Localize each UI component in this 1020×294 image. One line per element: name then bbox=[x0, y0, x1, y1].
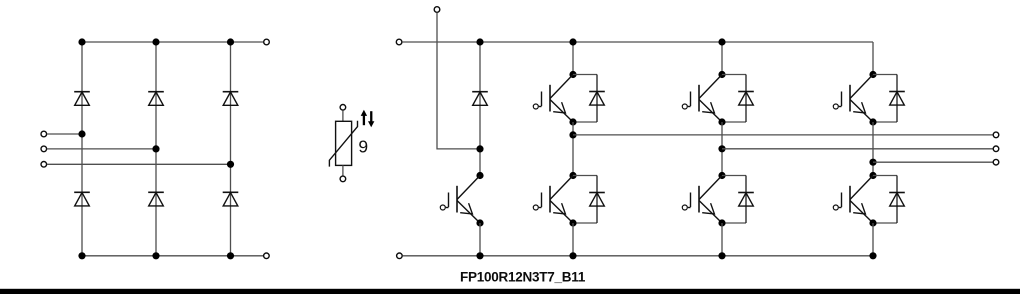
wire: phase V top collector feed bbox=[721, 42, 723, 75]
wire: rectifier DC+ top rail bbox=[82, 41, 263, 43]
terminal: inverter DC- input bbox=[397, 253, 403, 259]
node: phase W top IGBT collector bbox=[869, 71, 876, 78]
node: DC+ rail / phase U leg bbox=[569, 38, 576, 45]
wire: brake terminal to chopper midpoint bbox=[437, 13, 480, 149]
wire: AC input line 3 bbox=[47, 163, 231, 165]
node: brake IGBT collector bbox=[476, 172, 483, 179]
node: DC+ rail / brake leg bbox=[476, 38, 483, 45]
wire: AC input line 2 bbox=[47, 148, 156, 150]
footer bar bbox=[0, 289, 1020, 294]
node: phase V output junction bbox=[718, 145, 725, 152]
node: phase W output junction bbox=[869, 159, 876, 166]
thermistor top terminal bbox=[340, 105, 346, 111]
IGBT Q3 (phase V high side) bbox=[682, 75, 722, 123]
node: AC input 1 / leg 1 junction bbox=[78, 130, 85, 137]
diode D3 (rectifier leg 3 top) bbox=[223, 92, 239, 106]
wire: phase W bottom emitter feed bbox=[872, 223, 874, 256]
node: DC- rail / phase W leg bbox=[869, 252, 876, 259]
wire: brake leg lower vertical bbox=[479, 223, 481, 256]
node: phase W bottom IGBT collector bbox=[869, 172, 876, 179]
freewheel diode (phase U high side) symbol bbox=[589, 92, 605, 106]
diode D2 (rectifier leg 2 top) bbox=[148, 92, 164, 106]
wire: inverter DC- rail bbox=[403, 255, 874, 257]
node: bottom rail / leg 3 junction bbox=[227, 252, 234, 259]
wire: rectifier leg 2 vertical bbox=[155, 42, 157, 256]
freewheel diode (phase V low side) symbol bbox=[738, 193, 754, 207]
svg-text:FP100R12N3T7_B11: FP100R12N3T7_B11 bbox=[460, 269, 586, 284]
node: phase U top IGBT collector bbox=[569, 71, 576, 78]
node: phase V bottom IGBT emitter bbox=[718, 219, 725, 226]
wire: phase U output line bbox=[573, 134, 993, 136]
terminal: phase W output bbox=[993, 159, 999, 165]
node: DC- rail / brake leg bbox=[476, 252, 483, 259]
freewheel diode (phase U low side) bbox=[573, 176, 597, 224]
node: brake IGBT emitter bbox=[476, 219, 483, 226]
node: phase V top IGBT collector bbox=[718, 71, 725, 78]
node: DC+ rail / phase V leg bbox=[718, 38, 725, 45]
freewheel diode (phase W low side) bbox=[873, 176, 897, 224]
freewheel diode (phase V low side) bbox=[722, 176, 746, 224]
wire: phase V bottom emitter feed bbox=[721, 223, 723, 256]
IGBT Q2 (phase U low side) bbox=[533, 176, 573, 224]
wire: phase U midpoint vertical bbox=[572, 122, 574, 176]
node: phase U top IGBT emitter bbox=[569, 118, 576, 125]
wire: phase W output line bbox=[873, 161, 993, 163]
terminal: AC input 1 bbox=[41, 131, 47, 137]
wire: phase V midpoint vertical bbox=[721, 122, 723, 176]
terminal: rectifier DC- output bbox=[264, 253, 270, 259]
IGBT Q1 (phase U high side) bbox=[533, 75, 573, 123]
wire: phase W midpoint vertical bbox=[872, 122, 874, 176]
node: phase U bottom IGBT collector bbox=[569, 172, 576, 179]
diode D6 (rectifier leg 3 bottom) bbox=[223, 192, 239, 206]
terminal: phase U output bbox=[993, 132, 999, 138]
diode D1 (rectifier leg 1 top) bbox=[74, 92, 90, 106]
node: phase W bottom IGBT emitter bbox=[869, 219, 876, 226]
terminal: brake resistor connection bbox=[434, 7, 440, 13]
wire: phase V output line bbox=[722, 148, 993, 150]
wire: phase U bottom emitter feed bbox=[572, 223, 574, 256]
freewheel diode (phase W low side) symbol bbox=[889, 193, 905, 207]
node: top rail / leg 3 junction bbox=[227, 38, 234, 45]
node: phase V bottom IGBT collector bbox=[718, 172, 725, 179]
node: AC input 2 / leg 2 junction bbox=[152, 145, 159, 152]
terminal: AC input 3 bbox=[41, 162, 47, 168]
wire: rectifier leg 1 vertical bbox=[81, 42, 83, 256]
IGBT Q7 (brake chopper) bbox=[440, 176, 480, 224]
node: phase V top IGBT emitter bbox=[718, 118, 725, 125]
thermistor bottom terminal bbox=[340, 176, 346, 182]
wire: thermistor bottom lead bbox=[342, 165, 344, 175]
freewheel diode (phase W high side) symbol bbox=[889, 92, 905, 106]
node: AC input 3 / leg 3 junction bbox=[227, 161, 234, 168]
IGBT Q6 (phase W low side) bbox=[833, 176, 873, 224]
wire: phase W top collector feed bbox=[872, 42, 874, 75]
wire: inverter DC+ rail bbox=[402, 41, 873, 43]
svg-text:9: 9 bbox=[358, 136, 368, 156]
terminal: rectifier DC+ output bbox=[264, 39, 270, 45]
node: DC- rail / phase U leg bbox=[569, 252, 576, 259]
diode D4 (rectifier leg 1 bottom) bbox=[74, 192, 90, 206]
node: top rail / leg 1 junction bbox=[78, 38, 85, 45]
IGBT Q4 (phase V low side) bbox=[682, 176, 722, 224]
wire: thermistor top lead bbox=[342, 110, 344, 121]
temperature up arrow bbox=[361, 110, 367, 125]
terminal: phase V output bbox=[993, 146, 999, 152]
node: phase U bottom IGBT emitter bbox=[569, 219, 576, 226]
NTC thermistor R(NTC) body bbox=[329, 121, 357, 167]
wire: rectifier DC- bottom rail bbox=[82, 255, 263, 257]
diode D5 (rectifier leg 2 bottom) bbox=[148, 192, 164, 206]
node: bottom rail / leg 2 junction bbox=[152, 252, 159, 259]
node: brake midpoint junction bbox=[476, 145, 483, 152]
IGBT Q5 (phase W high side) bbox=[833, 75, 873, 123]
freewheel diode (phase W high side) bbox=[873, 75, 897, 123]
wire: AC input line 1 bbox=[47, 133, 82, 135]
freewheel diode (phase U high side) bbox=[573, 75, 597, 123]
temperature down arrow bbox=[368, 111, 374, 127]
node: bottom rail / leg 1 junction bbox=[78, 252, 85, 259]
node: phase U output junction bbox=[569, 131, 576, 138]
freewheel diode (phase U low side) symbol bbox=[589, 193, 605, 207]
freewheel diode (phase V high side) bbox=[722, 75, 746, 123]
diode D7 (brake chopper freewheel) bbox=[472, 92, 488, 106]
wire: brake leg upper vertical bbox=[479, 42, 481, 176]
node: top rail / leg 2 junction bbox=[152, 38, 159, 45]
wire: phase U top collector feed bbox=[572, 42, 574, 75]
freewheel diode (phase V high side) symbol bbox=[738, 92, 754, 106]
node: DC- rail / phase V leg bbox=[718, 252, 725, 259]
wire: rectifier leg 3 vertical bbox=[230, 42, 232, 256]
node: phase W top IGBT emitter bbox=[869, 118, 876, 125]
terminal: AC input 2 bbox=[41, 146, 47, 152]
terminal: inverter DC+ input bbox=[396, 39, 402, 45]
